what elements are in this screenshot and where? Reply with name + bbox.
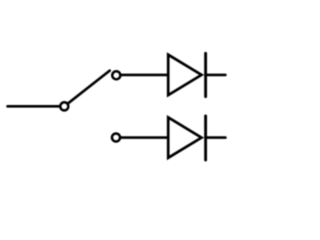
wire: left input lead to switch pole bbox=[8, 105, 65, 108]
wire: D2 cathode lead bbox=[206, 136, 226, 139]
switch throw terminal circle bbox=[112, 71, 120, 79]
wire: D1 cathode lead bbox=[206, 74, 226, 77]
diode D1 cathode bar bbox=[204, 53, 207, 96]
diode D2 cathode bar bbox=[204, 116, 207, 160]
diode D1 triangle (anode) bbox=[168, 55, 201, 95]
open input terminal circle at D2 bbox=[112, 133, 120, 141]
switch pole terminal circle bbox=[60, 102, 68, 110]
diode D2 triangle (anode) bbox=[168, 117, 201, 157]
wire: switch throw node to D1 anode bbox=[116, 74, 168, 77]
switch SW1 lever arm (open) bbox=[64, 71, 109, 107]
wire: open terminal to D2 anode bbox=[116, 136, 169, 139]
